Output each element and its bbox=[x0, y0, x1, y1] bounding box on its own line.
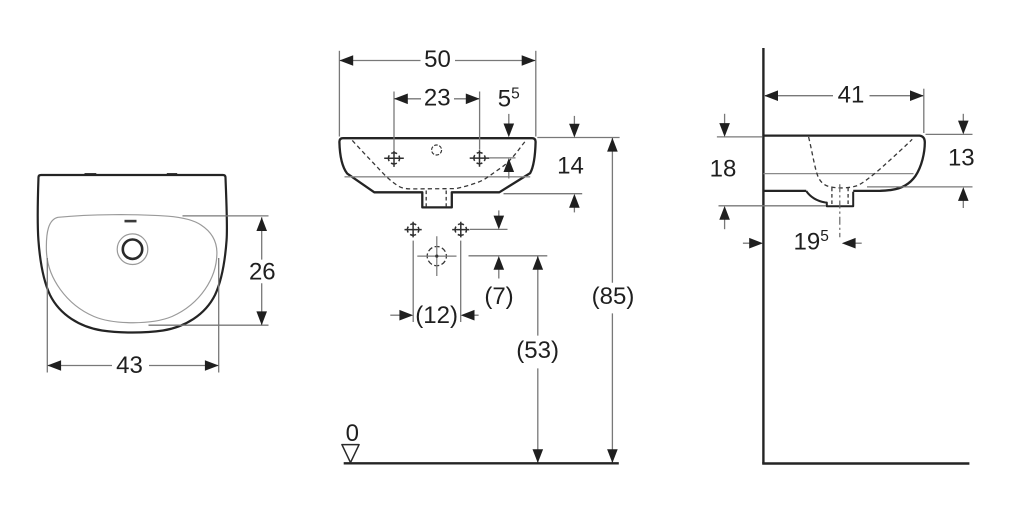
washbasin side bottom edge right of trap bbox=[853, 190, 881, 192]
svg-text:55: 55 bbox=[498, 85, 520, 112]
dashed siphon circle bbox=[427, 247, 446, 266]
dimension 43 arrow right bbox=[205, 360, 219, 371]
wall fixing crosshair left bbox=[405, 222, 422, 238]
dimension (85) arrow down bbox=[607, 449, 618, 463]
drain centerline dash-dot bbox=[839, 184, 841, 237]
svg-text:14: 14 bbox=[557, 152, 584, 179]
dimension (85) line bbox=[611, 138, 613, 463]
dimension (85) arrow up bbox=[607, 138, 618, 152]
dimension (53) arrow up bbox=[533, 256, 544, 270]
inner rim outline bbox=[46, 215, 217, 323]
overflow slot mark bbox=[125, 220, 137, 223]
dimension 14 upper arrow with stem bbox=[573, 116, 575, 126]
dimension 23 arrow right bbox=[466, 94, 480, 105]
dimension 50 arrow left bbox=[339, 55, 353, 66]
drain outer circle bbox=[117, 234, 148, 265]
dimension 26 arrow up bbox=[256, 217, 267, 231]
dimension 50 arrow right bbox=[522, 55, 536, 66]
extension line (12) left bbox=[412, 241, 414, 322]
svg-text:(7): (7) bbox=[484, 283, 513, 310]
dimension 5.5 lower arrow with stem bbox=[508, 169, 510, 179]
short reference line at tap hole level bbox=[490, 157, 516, 159]
siphon circle centerlines bbox=[417, 236, 456, 276]
short reference line at fixing hole level bbox=[470, 228, 508, 230]
dashed drain hole right wall bbox=[445, 191, 447, 207]
dimension (7) lower arrow with stem bbox=[498, 267, 500, 279]
dimension 41 arrow left bbox=[764, 90, 778, 101]
dimension (12) right arrow with tail bbox=[474, 314, 479, 316]
overflow dashed circle front bbox=[432, 145, 442, 155]
washbasin side bottom edge left of trap bbox=[763, 190, 806, 192]
svg-text:(12): (12) bbox=[415, 302, 458, 329]
dimension 13 upper arrow with stem bbox=[962, 114, 964, 123]
dimension 19.5 left arrow with tail bbox=[743, 242, 750, 244]
drain inner circle bbox=[123, 240, 142, 259]
dimension 50 line bbox=[339, 60, 535, 62]
leader line bottom for dim 26 bbox=[149, 324, 269, 326]
tap hole crosshair left bbox=[384, 151, 404, 167]
floor line bbox=[762, 462, 969, 464]
dimension (53) line bbox=[537, 256, 539, 463]
extension line 41 right bbox=[923, 89, 925, 133]
dimension 23 arrow left bbox=[394, 94, 408, 105]
extension line 23 left bbox=[393, 92, 395, 151]
dashed inner bowl front bbox=[352, 140, 526, 189]
extension line 50 right bbox=[535, 51, 537, 137]
wall fixing crosshair right bbox=[452, 222, 469, 238]
reference line 18 top bbox=[717, 136, 763, 138]
dimension 43 arrow left bbox=[47, 360, 61, 371]
dimension 14 lower arrow with stem bbox=[573, 205, 575, 213]
leader line top for dim 26 bbox=[183, 215, 269, 217]
dimension (53) arrow down bbox=[533, 449, 544, 463]
tap hole crosshair right bbox=[470, 150, 490, 166]
svg-text:0: 0 bbox=[346, 420, 359, 447]
dimension 41 line bbox=[764, 95, 924, 97]
siphon center dot bbox=[435, 255, 438, 258]
dimension 13 lower arrow with stem bbox=[962, 198, 964, 209]
washbasin side outline top and front bbox=[763, 136, 924, 191]
reference line 14 bottom bbox=[504, 193, 583, 195]
dimension 18 lower arrow with stem bbox=[724, 217, 726, 229]
dimension 26 line bbox=[261, 217, 263, 325]
reference line 13 top bbox=[926, 133, 973, 135]
dimension 23 line bbox=[394, 98, 480, 100]
reference line at siphon level bbox=[469, 255, 548, 257]
svg-text:18: 18 bbox=[710, 155, 737, 182]
washbasin top-view outer outline bbox=[38, 175, 227, 333]
wall line bbox=[762, 48, 764, 464]
dimension 26 arrow down bbox=[256, 311, 267, 325]
extension line (12) right bbox=[460, 241, 462, 322]
front waterline bbox=[345, 176, 531, 178]
reference line 13 bottom bbox=[867, 186, 973, 188]
svg-text:23: 23 bbox=[424, 85, 451, 112]
washbasin front outline bbox=[339, 138, 535, 207]
extension line 23 right bbox=[479, 92, 481, 150]
svg-text:(85): (85) bbox=[592, 283, 635, 310]
svg-text:(53): (53) bbox=[516, 337, 559, 364]
zero datum baseline bbox=[344, 462, 619, 464]
extension line 50 left bbox=[338, 51, 340, 137]
fixing notch right on top edge bbox=[167, 173, 177, 175]
siphon trap outline bbox=[806, 191, 853, 206]
svg-text:195: 195 bbox=[794, 228, 829, 255]
svg-text:43: 43 bbox=[116, 352, 143, 379]
reference line 14 top bbox=[537, 137, 619, 139]
dashed drain pipe walls in trap bbox=[832, 188, 848, 206]
svg-text:13: 13 bbox=[948, 145, 975, 172]
extension line 43 left bbox=[46, 258, 48, 373]
dimension (7) upper arrow with stem bbox=[498, 210, 500, 218]
dashed inner bowl side bbox=[809, 137, 913, 188]
datum triangle bbox=[342, 445, 359, 463]
extension line 43 right bbox=[218, 258, 220, 373]
dimension 41 arrow right bbox=[910, 90, 924, 101]
dimension 19.5 right arrow with tail bbox=[855, 242, 862, 244]
svg-text:50: 50 bbox=[424, 46, 451, 73]
dimension 43 line bbox=[47, 365, 218, 367]
dimension (12) left arrow with tail bbox=[390, 314, 400, 316]
dashed drain hole left wall bbox=[425, 191, 427, 207]
svg-text:41: 41 bbox=[838, 82, 865, 109]
dimension 18 upper arrow with stem bbox=[724, 114, 726, 126]
reference line 18 bottom bbox=[719, 205, 827, 207]
side waterline bbox=[763, 173, 913, 175]
fixing notch left on top edge bbox=[85, 173, 97, 175]
svg-text:26: 26 bbox=[249, 258, 276, 285]
dimension 5.5 upper arrow with stem bbox=[508, 114, 510, 126]
